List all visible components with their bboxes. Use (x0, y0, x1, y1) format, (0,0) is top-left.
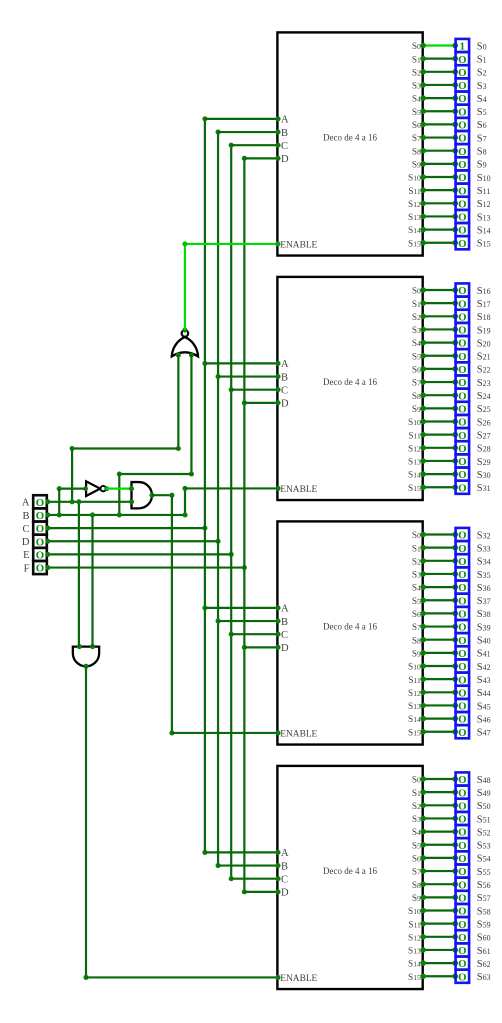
svg-text:S23: S23 (477, 378, 491, 389)
wire U1.S10 to output pin S10 (420, 174, 458, 180)
wire tap U1.C (231, 143, 280, 148)
wire U3.S14 to output pin S46 (420, 716, 458, 722)
svg-text:S5: S5 (477, 107, 487, 118)
svg-text:S38: S38 (477, 609, 491, 620)
wire U1.S0 to output pin S0 (420, 43, 458, 49)
output pin S35 (456, 567, 470, 581)
label S31 (477, 483, 491, 494)
label S10 (477, 173, 491, 184)
svg-text:D: D (281, 643, 289, 654)
wire U1.S6 to output pin S6 (420, 122, 458, 128)
svg-text:S47: S47 (477, 728, 491, 739)
svg-text:S2: S2 (412, 313, 421, 323)
svg-text:S52: S52 (477, 827, 491, 838)
NOR gate U5 (points up) (172, 327, 198, 357)
svg-text:S11: S11 (408, 676, 421, 686)
svg-text:O: O (458, 727, 466, 739)
wire U3.S3 to output pin S35 (420, 571, 458, 577)
wire U1.S1 to output pin S1 (420, 56, 458, 62)
output pin S37 (456, 594, 470, 608)
svg-text:S5: S5 (412, 841, 421, 851)
svg-text:S17: S17 (477, 299, 491, 310)
label S11 (477, 186, 491, 197)
wire tap U4.A (205, 850, 281, 855)
svg-text:S26: S26 (477, 417, 491, 428)
label S28 (477, 444, 491, 455)
output pin S63 (456, 970, 470, 984)
svg-text:S61: S61 (477, 946, 491, 957)
output pin S49 (456, 786, 470, 800)
label S49 (477, 788, 491, 799)
svg-text:S4: S4 (412, 339, 421, 349)
output pin S17 (456, 297, 470, 311)
input pin E (33, 548, 47, 562)
label S7 (477, 133, 487, 144)
svg-text:S2: S2 (412, 557, 421, 567)
wire tap U2.B (218, 374, 281, 379)
output pin S38 (456, 607, 470, 621)
wire U2.S0 to output pin S16 (420, 287, 458, 293)
svg-text:S6: S6 (412, 121, 421, 131)
output pin S27 (456, 428, 470, 442)
svg-text:Deco de 4 a 16: Deco de 4 a 16 (323, 132, 377, 142)
svg-text:S11: S11 (408, 920, 421, 930)
label S43 (477, 675, 491, 686)
svg-text:A: A (281, 359, 289, 370)
wire U4.S12 to output pin S60 (420, 934, 458, 940)
svg-text:S54: S54 (477, 854, 491, 865)
svg-text:S29: S29 (477, 457, 491, 468)
label S40 (477, 636, 491, 647)
svg-text:S15: S15 (408, 728, 421, 738)
svg-text:S46: S46 (477, 714, 491, 725)
svg-text:S1: S1 (412, 789, 421, 799)
svg-text:S34: S34 (477, 557, 491, 568)
svg-text:S11: S11 (408, 187, 421, 197)
output pin S55 (456, 864, 470, 878)
output pin S5 (456, 105, 470, 119)
wire U3.S6 to output pin S38 (420, 611, 458, 617)
wire NOR input 2 from B (117, 355, 194, 518)
output pin S19 (456, 323, 470, 337)
label S54 (477, 854, 491, 865)
svg-text:S14: S14 (408, 471, 421, 481)
output pin S32 (456, 528, 470, 542)
output pin S44 (456, 686, 470, 700)
wire U4.S15 to output pin S63 (420, 973, 458, 979)
input pin A (33, 495, 47, 509)
svg-text:ENABLE: ENABLE (280, 485, 317, 495)
wire tap U2.C (231, 387, 280, 392)
svg-text:B: B (22, 511, 29, 522)
wire pin D row (45, 539, 220, 544)
svg-text:S62: S62 (477, 959, 491, 970)
wire U1.S12 to output pin S12 (420, 201, 458, 207)
wire tap U1.B (218, 130, 281, 135)
label S22 (477, 365, 491, 376)
output pin S16 (456, 283, 470, 297)
label S18 (477, 312, 491, 323)
label S62 (477, 959, 491, 970)
output pin S36 (456, 581, 470, 595)
wire U1.S2 to output pin S2 (420, 69, 458, 75)
svg-text:S9: S9 (412, 894, 421, 904)
svg-text:S6: S6 (477, 120, 487, 131)
wire AND U8 output to U4.ENABLE (83, 666, 280, 980)
label S12 (477, 199, 491, 210)
wire tap U3.D (244, 645, 280, 650)
label S24 (477, 391, 491, 402)
svg-text:S14: S14 (477, 225, 491, 236)
input pin C (33, 522, 47, 536)
svg-text:S39: S39 (477, 622, 491, 633)
output pin S9 (456, 157, 470, 171)
wire U1.S3 to output pin S3 (420, 82, 458, 88)
output pin S8 (456, 144, 470, 158)
wire U1.S4 to output pin S4 (420, 95, 458, 101)
svg-text:S14: S14 (408, 715, 421, 725)
svg-text:S18: S18 (477, 312, 491, 323)
output pin S24 (456, 389, 470, 403)
svg-text:S4: S4 (477, 94, 487, 105)
svg-text:S35: S35 (477, 570, 491, 581)
label S51 (477, 814, 491, 825)
wire tap U3.B (218, 619, 281, 624)
NOT gate U6 (83, 481, 109, 496)
label S32 (477, 530, 491, 541)
svg-text:O: O (36, 563, 44, 575)
svg-text:S1: S1 (412, 55, 421, 65)
wire bus column B (U1.B to U4.B) (216, 130, 221, 869)
svg-text:S44: S44 (477, 688, 491, 699)
wire U3.S12 to output pin S44 (420, 690, 458, 696)
svg-text:S8: S8 (412, 392, 421, 402)
svg-text:S12: S12 (477, 199, 491, 210)
svg-text:S58: S58 (477, 906, 491, 917)
svg-text:S16: S16 (477, 286, 491, 297)
label S14 (477, 225, 491, 236)
svg-text:S0: S0 (412, 42, 421, 52)
svg-text:S15: S15 (477, 239, 491, 250)
svg-text:S15: S15 (408, 239, 421, 249)
output pin S33 (456, 541, 470, 555)
svg-text:S40: S40 (477, 636, 491, 647)
output pin S56 (456, 878, 470, 892)
label S46 (477, 714, 491, 725)
svg-text:S0: S0 (412, 776, 421, 786)
svg-text:ENABLE: ENABLE (280, 241, 317, 251)
svg-text:S3: S3 (412, 82, 421, 92)
label S47 (477, 728, 491, 739)
svg-text:S43: S43 (477, 675, 491, 686)
wire U1.S14 to output pin S14 (420, 227, 458, 233)
svg-text:S48: S48 (477, 775, 491, 786)
wire U4.S0 to output pin S48 (420, 776, 458, 782)
output pin S11 (456, 184, 470, 198)
svg-text:S8: S8 (412, 147, 421, 157)
output pin S39 (456, 620, 470, 634)
decoder U1 Deco de 4 a 16 (277, 32, 422, 255)
output pin S40 (456, 633, 470, 647)
wire U4.S13 to output pin S61 (420, 947, 458, 953)
svg-text:C: C (281, 141, 288, 152)
svg-text:Deco de 4 a 16: Deco de 4 a 16 (323, 621, 377, 631)
svg-text:S9: S9 (477, 160, 487, 171)
svg-text:S13: S13 (408, 213, 421, 223)
wire U2.S13 to output pin S29 (420, 458, 458, 464)
svg-text:S13: S13 (408, 947, 421, 957)
wire U2.S12 to output pin S28 (420, 445, 458, 451)
output pin S30 (456, 468, 470, 482)
svg-text:B: B (281, 617, 288, 628)
output pin S62 (456, 957, 470, 971)
label S55 (477, 867, 491, 878)
wire U2.S6 to output pin S22 (420, 366, 458, 372)
label S30 (477, 470, 491, 481)
decoder U4 Deco de 4 a 16 (277, 766, 422, 989)
svg-text:Deco de 4 a 16: Deco de 4 a 16 (323, 377, 377, 387)
wire A to AND U8 input 1 (76, 499, 81, 646)
output pin S26 (456, 415, 470, 429)
label S34 (477, 557, 491, 568)
output pin S45 (456, 699, 470, 713)
svg-text:S10: S10 (408, 663, 421, 673)
svg-text:Deco de 4 a 16: Deco de 4 a 16 (323, 866, 377, 876)
wire U3.S7 to output pin S39 (420, 624, 458, 630)
wire U4.S3 to output pin S51 (420, 816, 458, 822)
output pin S7 (456, 131, 470, 145)
label S38 (477, 609, 491, 620)
svg-text:D: D (281, 888, 289, 899)
svg-text:S1: S1 (412, 544, 421, 554)
label S15 (477, 239, 491, 250)
svg-text:A: A (281, 604, 289, 615)
output pin S51 (456, 812, 470, 826)
svg-text:S14: S14 (408, 226, 421, 236)
output pin S23 (456, 375, 470, 389)
svg-text:S4: S4 (412, 584, 421, 594)
output pin S0 (456, 39, 470, 53)
svg-text:S11: S11 (477, 186, 491, 197)
label S53 (477, 841, 491, 852)
svg-text:S10: S10 (408, 174, 421, 184)
svg-text:A: A (281, 115, 289, 126)
wire U3.S9 to output pin S41 (420, 650, 458, 656)
wire U2.S4 to output pin S20 (420, 340, 458, 346)
wire U4.S6 to output pin S54 (420, 855, 458, 861)
svg-text:S5: S5 (412, 108, 421, 118)
output pin S53 (456, 838, 470, 852)
input pin B (33, 508, 47, 522)
label S17 (477, 299, 491, 310)
wire U3.S10 to output pin S42 (420, 663, 458, 669)
output pin S21 (456, 349, 470, 363)
wire tap U4.C (231, 876, 280, 881)
svg-text:C: C (281, 874, 288, 885)
wire U3.S13 to output pin S45 (420, 703, 458, 709)
svg-text:S37: S37 (477, 596, 491, 607)
svg-text:S12: S12 (408, 200, 421, 210)
output pin S22 (456, 362, 470, 376)
svg-text:S1: S1 (477, 54, 487, 65)
label S3 (477, 81, 487, 92)
svg-text:S8: S8 (412, 881, 421, 891)
label S8 (477, 147, 487, 158)
wire bus column C (U1.C to U4.C) (229, 143, 234, 882)
svg-text:S9: S9 (412, 160, 421, 170)
output pin S12 (456, 197, 470, 211)
wire U4.S7 to output pin S55 (420, 868, 458, 874)
label S23 (477, 378, 491, 389)
output pin S47 (456, 725, 470, 739)
wire tap U3.A (205, 605, 281, 610)
wire U2.S11 to output pin S27 (420, 432, 458, 438)
wire U4.S4 to output pin S52 (420, 829, 458, 835)
wire U4.S14 to output pin S62 (420, 960, 458, 966)
svg-text:S4: S4 (412, 828, 421, 838)
svg-text:S7: S7 (412, 134, 421, 144)
label S4 (477, 94, 487, 105)
wire U2.S9 to output pin S25 (420, 406, 458, 412)
svg-text:O: O (458, 971, 466, 983)
wire U3.S11 to output pin S43 (420, 676, 458, 682)
wire U2.S2 to output pin S18 (420, 314, 458, 320)
label S56 (477, 880, 491, 891)
svg-text:D: D (281, 399, 289, 410)
wire pin C row (45, 526, 207, 531)
wire U3.S2 to output pin S34 (420, 558, 458, 564)
label S16 (477, 286, 491, 297)
svg-text:S41: S41 (477, 649, 491, 660)
wire tap U2.A (205, 361, 281, 366)
label S61 (477, 946, 491, 957)
wire bus column D (U1.D to U4.D) (242, 156, 247, 895)
output pin S4 (456, 92, 470, 106)
AND gate U7 (129, 482, 155, 508)
wire NOT input from B (57, 486, 86, 517)
wire U2.S14 to output pin S30 (420, 471, 458, 477)
svg-text:S10: S10 (408, 418, 421, 428)
svg-text:S24: S24 (477, 391, 491, 402)
label S25 (477, 404, 491, 415)
wire U1.S15 to output pin S15 (420, 240, 458, 246)
wire U3.S4 to output pin S36 (420, 584, 458, 590)
svg-text:B: B (281, 861, 288, 872)
svg-text:S42: S42 (477, 662, 491, 673)
output pin S13 (456, 210, 470, 224)
svg-text:D: D (22, 537, 30, 548)
wire NOR output to U1.ENABLE (high) (182, 241, 280, 330)
wire U1.S9 to output pin S9 (420, 161, 458, 167)
output pin S29 (456, 454, 470, 468)
wire B to AND U8 input 2 (90, 512, 95, 646)
wire U1.S7 to output pin S7 (420, 135, 458, 141)
wire U1.S11 to output pin S11 (420, 187, 458, 193)
svg-text:B: B (281, 372, 288, 383)
label S2 (477, 68, 487, 79)
wire tap U4.D (244, 889, 280, 894)
svg-text:S59: S59 (477, 919, 491, 930)
svg-text:S10: S10 (477, 173, 491, 184)
output pin S46 (456, 712, 470, 726)
svg-text:S8: S8 (477, 147, 487, 158)
svg-text:A: A (22, 498, 30, 509)
svg-text:S3: S3 (477, 81, 487, 92)
wire U1.S8 to output pin S8 (420, 148, 458, 154)
svg-text:S12: S12 (408, 933, 421, 943)
svg-text:S5: S5 (412, 597, 421, 607)
wire U3.S5 to output pin S37 (420, 597, 458, 603)
svg-text:S13: S13 (408, 702, 421, 712)
label S48 (477, 775, 491, 786)
svg-text:B: B (281, 128, 288, 139)
wire pin F row (45, 565, 247, 570)
wire tap U2.D (244, 400, 280, 405)
output pin S28 (456, 441, 470, 455)
label S26 (477, 417, 491, 428)
svg-text:S7: S7 (412, 868, 421, 878)
svg-text:S21: S21 (477, 352, 491, 363)
output pin S52 (456, 825, 470, 839)
wire U3.S15 to output pin S47 (420, 729, 458, 735)
svg-text:S60: S60 (477, 933, 491, 944)
svg-text:S51: S51 (477, 814, 491, 825)
svg-text:S30: S30 (477, 470, 491, 481)
wire U4.S9 to output pin S57 (420, 895, 458, 901)
wire bus column A (U1.A to U4.A) (202, 116, 207, 855)
svg-text:S49: S49 (477, 788, 491, 799)
svg-text:S50: S50 (477, 801, 491, 812)
label S33 (477, 543, 491, 554)
input pin F (33, 561, 47, 575)
svg-text:S3: S3 (412, 326, 421, 336)
output pin S50 (456, 799, 470, 813)
svg-text:S53: S53 (477, 841, 491, 852)
output pin S2 (456, 65, 470, 79)
svg-text:S55: S55 (477, 867, 491, 878)
svg-text:D: D (281, 154, 289, 165)
svg-text:S36: S36 (477, 583, 491, 594)
wire U2.S5 to output pin S21 (420, 353, 458, 359)
label S37 (477, 596, 491, 607)
svg-text:S9: S9 (412, 649, 421, 659)
input pin D (33, 535, 47, 549)
output pin S6 (456, 118, 470, 132)
svg-text:S0: S0 (477, 41, 487, 52)
svg-text:S9: S9 (412, 405, 421, 415)
svg-text:S14: S14 (408, 960, 421, 970)
output pin S3 (456, 78, 470, 92)
svg-text:S12: S12 (408, 444, 421, 454)
label S0 (477, 41, 487, 52)
wire U4.S11 to output pin S59 (420, 921, 458, 927)
svg-text:C: C (22, 524, 29, 535)
wire U3.S1 to output pin S33 (420, 545, 458, 551)
label S50 (477, 801, 491, 812)
wire U3.S8 to output pin S40 (420, 637, 458, 643)
svg-text:S13: S13 (477, 212, 491, 223)
decoder U2 Deco de 4 a 16 (277, 277, 422, 500)
output pin S42 (456, 659, 470, 673)
svg-text:S20: S20 (477, 338, 491, 349)
svg-text:S7: S7 (477, 133, 487, 144)
svg-text:S6: S6 (412, 610, 421, 620)
wire U2.S10 to output pin S26 (420, 419, 458, 425)
wire NOR input 1 from A (70, 355, 181, 504)
label S59 (477, 919, 491, 930)
label S27 (477, 430, 491, 441)
label S5 (477, 107, 487, 118)
